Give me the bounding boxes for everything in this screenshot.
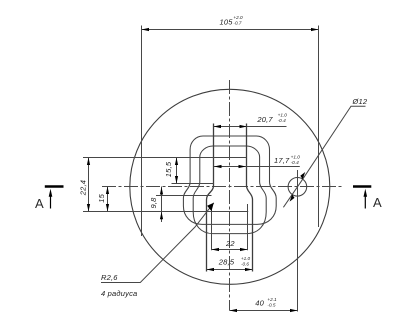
svg-text:A: A (373, 195, 382, 210)
svg-text:4 радиуса: 4 радиуса (101, 289, 137, 298)
svg-text:+2.1: +2.1 (267, 297, 277, 302)
svg-text:+1.0: +1.0 (241, 256, 251, 261)
svg-text:105: 105 (220, 17, 234, 26)
svg-text:28,5: 28,5 (218, 257, 235, 266)
svg-text:-0.6: -0.6 (241, 262, 249, 267)
svg-text:15,5: 15,5 (164, 161, 173, 177)
svg-text:-0.4: -0.4 (291, 160, 299, 165)
svg-text:40: 40 (255, 298, 264, 307)
svg-text:22: 22 (225, 239, 235, 248)
svg-text:17,7: 17,7 (274, 156, 290, 165)
svg-text:+2.0: +2.0 (233, 15, 243, 20)
svg-text:20,7: 20,7 (256, 115, 273, 124)
svg-text:-0.5: -0.5 (267, 303, 275, 308)
svg-text:+1.0: +1.0 (291, 155, 301, 160)
svg-text:-0.7: -0.7 (233, 21, 241, 26)
svg-text:R2,6: R2,6 (101, 273, 118, 282)
svg-text:9,8: 9,8 (149, 197, 158, 209)
svg-text:Ø12: Ø12 (352, 97, 368, 106)
svg-text:A: A (35, 196, 44, 211)
svg-text:15: 15 (97, 193, 106, 202)
svg-text:-0.4: -0.4 (278, 118, 286, 123)
svg-text:22,4: 22,4 (79, 180, 88, 196)
svg-text:+1.0: +1.0 (278, 113, 288, 118)
